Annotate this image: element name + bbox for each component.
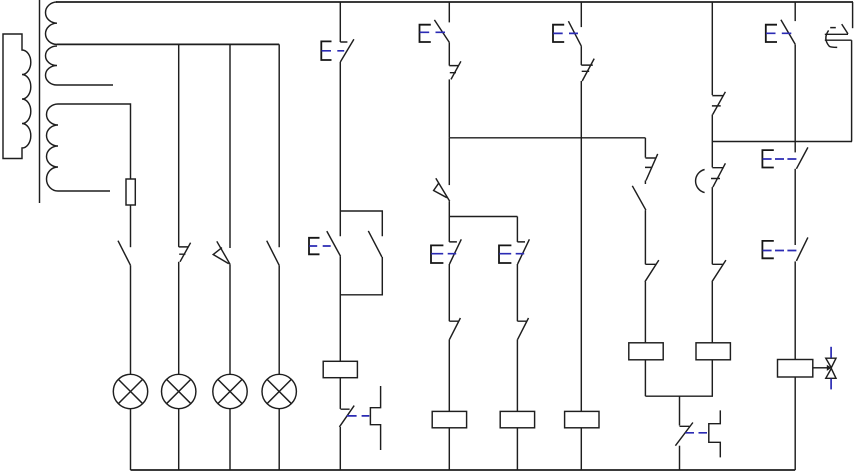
wire tee branch2 to branch3 [449, 216, 517, 218]
wire branch4 from top rail [580, 2, 582, 27]
wire branch2 limit switch to tee [448, 201, 450, 216]
selector switch SA2 link (dashed) [763, 250, 798, 252]
pushbutton SB2 link (dashed) [309, 245, 334, 247]
pushbutton SB6 link (dashed) [553, 32, 578, 34]
contact K NC branch5 [645, 260, 659, 282]
contact branch6 double-seat NC [712, 92, 726, 115]
wire branch3 pushbutton to NC contact [516, 264, 518, 321]
wire branch6 coil to joining wire [711, 360, 713, 396]
buzzer HA body arc [826, 28, 837, 48]
wire top supply rail [56, 1, 853, 3]
wire branch5 between contacts [644, 181, 646, 185]
wire branch6 contact to coil [711, 282, 713, 343]
relay coil K5 [629, 343, 663, 360]
contact K NC bottom center [675, 423, 693, 446]
valve body lower triangle [826, 368, 836, 378]
latch device symbol bottom center [709, 410, 721, 457]
wire branch1 from top rail [339, 2, 341, 42]
wire junction branch6 to right edge [712, 141, 852, 143]
wire branch2 pushbutton to NC contact [448, 264, 450, 321]
lamp HL2 [162, 374, 196, 408]
selector switch SA2 actuator E [762, 241, 773, 258]
pushbutton SB5 NC contact [517, 239, 529, 264]
pushbutton SB6 actuator E [553, 25, 564, 42]
pushbutton SB7 NO contact [781, 20, 795, 45]
relay coil K6 [696, 343, 730, 360]
transformer T1 secondary winding upper (above tap) [46, 2, 57, 44]
transformer T1 primary winding [3, 34, 31, 159]
wire branch7 from top rail [794, 2, 796, 21]
pushbutton SB2 right NO contact [368, 231, 382, 257]
limit switch SQ1 NO contact with wedge [434, 178, 450, 201]
wire branch7 coil to bottom rail [794, 377, 796, 470]
pushbutton SB3 link (dashed) [420, 31, 446, 33]
selector switch SA1 link (dashed) [763, 158, 798, 160]
contact branch4 double-seat NC [581, 59, 594, 81]
wire column4 switch to lamp [278, 265, 280, 374]
wire branch2 contact to coil [448, 339, 450, 411]
valve pipe upper (blue) [830, 347, 832, 358]
wire branch5 to NC contact [644, 210, 646, 264]
wire branch1 to bottom rail [339, 427, 341, 470]
wire branch7 between selector contacts [794, 169, 796, 245]
wire branch2 below pushbutton [448, 42, 450, 65]
contact K1 lower NC [339, 406, 354, 427]
selector switch SA2 NO contact [796, 237, 808, 261]
solenoid coil YV [778, 360, 813, 378]
pushbutton SB7 actuator E [766, 25, 777, 42]
pushbutton SB5 actuator E [499, 245, 511, 263]
pushbutton SB2 actuator E [309, 238, 320, 255]
relay coil K3 [500, 411, 534, 427]
wire column2 lamp to bottom rail [178, 409, 180, 470]
fuse FU1 [126, 179, 135, 205]
contact K NC branch6 [712, 260, 726, 282]
wire column2 from second rail [178, 44, 180, 247]
contact branch2 double-seat NC [449, 61, 461, 79]
switch S1 (NO contact) [118, 241, 131, 266]
selector switch SA1 NO contact [796, 147, 808, 168]
pushbutton SB3 NO contact [434, 20, 449, 43]
pushbutton SB2 parallel branch wires [340, 211, 382, 295]
wire branch5 from junction down [644, 138, 646, 158]
transformer T1 secondary winding lower (below tap) [46, 46, 114, 85]
wire branch5 coil to joining wire [644, 360, 646, 396]
wire right edge buzzer to junction [851, 40, 853, 141]
lamp HL3 [213, 374, 247, 408]
pushbutton SB4 NC contact [449, 239, 461, 264]
latch device symbol branch1 [370, 386, 380, 450]
wire branch7 to valve coil [794, 261, 796, 359]
wire column4 lamp to bottom rail [278, 409, 280, 470]
relay coil K2 [432, 411, 466, 427]
pushbutton SB1 link (dashed) [322, 50, 345, 52]
wire branch4 to coil [580, 81, 582, 411]
lamp HL1 [113, 374, 147, 408]
wire column1 fuse to switch [130, 205, 132, 247]
wire bottom return rail [131, 469, 796, 471]
pushbutton SB2 left NO contact [327, 231, 341, 256]
wire branch4 coil to bottom rail [580, 428, 582, 470]
mechanical link (dashed) bottom center [686, 432, 709, 434]
wire branch6 to junction [711, 115, 713, 142]
valve pipe lower (blue) [830, 379, 832, 390]
wire column3 lamp to bottom rail [229, 409, 231, 470]
wire branch1 coil to contact [339, 378, 341, 409]
wire branch1 to pushbutton SB2 [339, 62, 341, 236]
wire column1 switch to lamp [130, 265, 132, 374]
pushbutton SB1 actuator E [321, 41, 331, 60]
selector switch SA1 actuator E [762, 150, 773, 167]
contact K NO branch5 [632, 186, 646, 210]
wire center drop from joining wire [679, 396, 681, 425]
wire branch3 coil to bottom rail [516, 428, 518, 470]
wire junction branch2 to branch5 [449, 137, 645, 139]
wire branch6 from top rail [711, 2, 713, 95]
pushbutton SB6 NO contact [568, 21, 581, 46]
transformer T1 second secondary winding [47, 104, 131, 191]
wire column3 from second rail [229, 44, 231, 248]
wire branch4 below pushbutton [580, 46, 582, 65]
pushbutton SB4 link (dashed) [431, 253, 456, 255]
wire branch2 tee to pushbutton [448, 217, 450, 242]
pushbutton SB7 link (dashed) [766, 32, 792, 34]
wire branch3 from tee [516, 217, 518, 242]
lamp HL4 [262, 374, 296, 408]
pushbutton SB1 NC contact [340, 39, 354, 62]
speed relay contact branch6 (NC with arc) [696, 163, 726, 192]
wire branch3 contact to coil [516, 339, 518, 411]
wire column4 from second rail [278, 44, 280, 247]
wire branch2 junction to limit switch [448, 138, 450, 185]
transformer T1 core [39, 0, 41, 203]
pushbutton SB3 actuator E [420, 25, 431, 42]
switch S2 (double-seat break contact) [179, 243, 191, 262]
wire second rail from secondary tap [57, 43, 279, 45]
wire joining branch5 and branch6 [645, 395, 713, 397]
contact branch5 double-seat NC [645, 154, 658, 181]
mechanical link (dashed) branch1 bottom [347, 415, 370, 417]
wire branch6 to NC contact [711, 187, 713, 264]
switch S4 (NO contact) [267, 241, 280, 266]
wire branch2 coil to bottom rail [448, 428, 450, 470]
relay coil K4 [565, 411, 599, 427]
arrow from coil to valve [813, 365, 832, 371]
wire column1 lamp to bottom rail [130, 409, 132, 470]
wire column3 switch to lamp [229, 264, 231, 374]
pushbutton SB5 link (dashed) [499, 253, 524, 255]
wire branch7 to selector contact [794, 44, 796, 152]
wire right edge from top rail [852, 2, 854, 28]
wire branch6 junction to speed contact [711, 142, 713, 168]
contact K NC branch3 [517, 318, 528, 339]
pushbutton SB4 actuator E [431, 245, 443, 263]
wire center drop to bottom rail [679, 446, 681, 470]
relay coil K1 [323, 361, 357, 377]
wire branch5 contact to coil [644, 282, 646, 343]
contact right edge NO blade [842, 24, 848, 34]
wire branch1 contact to relay coil [339, 256, 341, 361]
buzzer HA terminal lines [825, 34, 852, 40]
contact K NC branch2 [449, 318, 460, 339]
wire branch2 from top rail [448, 2, 450, 22]
valve body upper triangle [826, 358, 836, 368]
wire branch2 to junction [448, 79, 450, 137]
wire column2 switch to lamp [178, 262, 180, 375]
switch S3 (NO contact with wedge) [213, 241, 230, 264]
